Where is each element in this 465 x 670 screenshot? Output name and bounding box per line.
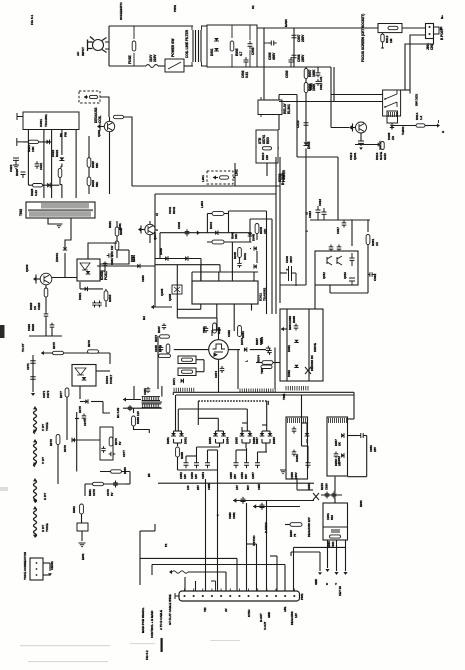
wire [367,220,369,232]
wire [265,450,267,452]
IC911 jungle IC box [192,281,258,304]
wire [228,211,230,233]
svg-text:25V: 25V [373,447,377,452]
arrow [123,397,126,401]
svg-text:D945: D945 [252,234,256,241]
capacitor C3 [292,32,297,40]
AC plug P1 [88,37,107,53]
wire [208,449,218,451]
wire [269,431,271,433]
wire [172,392,174,395]
arrow down [343,572,347,575]
svg-text:R976: R976 [87,340,91,347]
wire [75,439,100,441]
capacitor C5 [244,57,249,67]
capacitor C9 [378,141,383,148]
wire [100,250,129,264]
wire [425,125,437,127]
box R pack 2 [178,368,196,376]
svg-text:FUSE: FUSE [128,55,132,65]
resistor R34 [65,388,69,397]
resistor R19 [255,224,259,234]
capacitor C948 [162,323,166,330]
svg-text:50V: 50V [244,474,248,479]
wire [216,304,218,318]
svg-text:10K: 10K [234,233,238,239]
wire [100,270,105,272]
wire [331,127,349,129]
wire [293,28,295,67]
wire [270,555,277,557]
resistor R2 leads [231,25,233,67]
svg-text:+: + [286,268,288,272]
diode [59,157,64,160]
wire [353,127,356,129]
wire [224,213,229,215]
wire [405,39,434,91]
svg-text:C951: C951 [143,388,147,395]
wire [245,443,247,448]
svg-text:Q902: Q902 [97,130,101,137]
ground [56,224,63,228]
resistor R3 [304,69,308,79]
svg-text:R953 120: R953 120 [136,411,140,424]
wire [218,330,220,340]
resistor R946 [238,248,242,258]
svg-text:YOKE: YOKE [45,422,49,431]
svg-text:FIG 5-2: FIG 5-2 [145,650,149,660]
svg-text:R974: R974 [257,355,261,362]
wire [235,450,237,460]
capacitor C960 [325,492,330,499]
wire [181,439,183,443]
svg-text:Q901: Q901 [353,152,357,160]
svg-text:TDA8362: TDA8362 [263,287,267,301]
IC901 control box [23,112,79,130]
diode D4 lead [391,123,393,125]
wire [133,386,135,400]
svg-text:R926: R926 [31,324,35,331]
svg-text:Q912: Q912 [322,272,326,279]
arrow [213,175,216,179]
wire [296,479,298,490]
scan mark [161,638,163,652]
svg-text:H: H [441,131,445,133]
svg-text:1.2: 1.2 [419,115,423,120]
wire [249,219,251,240]
wire [265,443,267,450]
wire [100,471,130,473]
svg-text:COIL: COIL [98,115,102,123]
svg-text:4.7: 4.7 [239,51,243,56]
wire [41,352,110,354]
capacitor C981 [260,503,265,510]
svg-text:C925: C925 [37,302,41,310]
resistor R7 lead [381,33,384,48]
svg-text:D921: D921 [78,292,82,300]
scan smudge [0,487,8,491]
wire [279,94,297,96]
wire [273,362,280,364]
resistor R955 [176,447,180,457]
wire [80,288,103,290]
svg-text:REG: REG [266,137,270,144]
svg-text:SW DEG: SW DEG [415,93,419,106]
wire [401,89,410,91]
wire [242,430,250,432]
svg-text:C954: C954 [201,472,205,479]
wire [267,401,269,405]
degauss switch S901 [383,90,401,116]
wire [36,278,40,280]
wire [331,94,383,96]
resistor [90,95,98,98]
diode D971 [181,378,184,383]
transformer T1 windings [193,30,201,62]
optocoupler IC903 box [77,259,100,281]
capacitor C45 [82,414,87,421]
wire bottom rail [109,65,146,67]
wire [125,483,130,485]
wire [51,130,53,199]
resistor R7 [381,34,384,42]
transistor Q901 [356,122,367,133]
wire [177,308,201,310]
svg-text:FIG 5-1: FIG 5-1 [30,14,34,25]
capacitor C912 [316,79,321,86]
wire [177,443,179,446]
capacitor C957 [255,460,260,468]
wire [234,171,236,184]
wire [296,95,298,158]
svg-text:H DY: H DY [43,493,47,500]
svg-text:C943: C943 [177,222,181,229]
wire [80,401,85,403]
svg-text:D961: D961 [287,345,291,352]
wire [253,506,300,508]
resistor R941 [212,212,224,216]
resistor R25 [182,358,193,361]
svg-text:D957: D957 [255,437,259,444]
diode D18 [294,365,298,368]
diode D953 [213,433,218,436]
wire [256,362,262,364]
resistor R31 [330,535,341,538]
coil squiggle [172,571,188,573]
wire [391,126,393,130]
wire [330,95,332,128]
wire [219,443,221,447]
wire [249,439,251,443]
wire [219,265,221,272]
svg-text:C977: C977 [122,450,126,457]
svg-text:C955: C955 [207,483,211,490]
IC951 box [286,417,308,479]
wire [177,457,179,470]
wire [52,277,77,279]
transistor symbol [174,287,180,292]
svg-text:C952: C952 [227,330,231,337]
resistor R8 [416,124,425,127]
pin notches [185,589,295,592]
svg-text:0.01: 0.01 [245,72,249,78]
wire [207,213,212,215]
svg-text:C978: C978 [92,489,96,496]
svg-text:SCHEMATIC: SCHEMATIC [119,2,123,20]
arrow [281,327,284,331]
pin lead left [17,113,23,120]
svg-text:CONTROL + B MAIN: CONTROL + B MAIN [150,611,154,638]
diode D951 [171,433,176,436]
wire [196,359,204,361]
arrow [33,277,36,281]
wire [109,132,111,194]
wire [247,543,257,545]
wire [196,447,198,460]
svg-text:B5: B5 [147,473,151,477]
resistor R9 [381,142,384,150]
B+ jack J1 [426,24,440,39]
diode D957 [341,433,344,438]
wire [51,329,53,336]
power switch SW1 [165,59,184,72]
svg-text:C911: C911 [309,83,313,90]
wire [154,266,156,307]
svg-text:D952: D952 [184,437,188,444]
arrow [349,125,352,129]
svg-text:250V: 250V [301,54,305,62]
svg-text:C972: C972 [46,390,50,398]
pin hatch [286,386,308,391]
wire [108,26,110,66]
wire [178,408,247,410]
arrow out [437,123,440,127]
resistor R24 [262,361,273,365]
wire [151,306,172,308]
svg-text:R977: R977 [59,391,63,398]
svg-text:E901: E901 [81,553,85,560]
svg-text:C974: C974 [214,371,218,378]
transformer T902 [26,202,95,218]
wire [262,430,270,432]
diode D943 [197,230,200,234]
wire [275,157,277,160]
transistor mark [337,256,342,265]
svg-text:IC901: IC901 [39,119,43,127]
capacitor C22 [322,208,327,220]
wire [218,359,220,392]
capacitor C35 [292,450,297,457]
wire [196,371,204,373]
wire riser [195,581,197,591]
wire [236,449,247,451]
wire [334,497,336,503]
wire [173,439,175,443]
diode D921 [85,287,88,292]
wire [105,289,107,291]
diode D956 [248,433,253,436]
wire riser [266,500,268,591]
wire [151,565,153,576]
wire [297,156,338,158]
IC953 box [323,503,348,540]
tick [438,120,440,123]
connector left lead [175,593,179,599]
wire [367,245,369,294]
svg-text:R982: R982 [72,506,76,513]
resistor R2 [230,41,234,51]
IC952 box [327,417,348,476]
resistor R4 [304,83,308,93]
wire [280,284,306,286]
wire [157,336,159,389]
wire [333,67,335,102]
resistor R944 [212,240,224,244]
svg-text:P1: P1 [164,543,168,547]
capacitor C48 [113,481,118,488]
svg-text:C921: C921 [39,162,43,170]
wire [269,439,271,443]
svg-text:R978: R978 [49,439,53,446]
svg-text:16V: 16V [235,485,239,490]
wire [233,500,314,502]
degauss coil box [79,91,100,103]
svg-text:GND: GND [267,612,271,618]
wire [286,309,288,381]
svg-text:SYNC: SYNC [247,609,251,617]
wire [177,317,217,319]
svg-text:MAIN PCB SIGNAL: MAIN PCB SIGNAL [141,607,145,633]
svg-text:D953: D953 [208,437,212,444]
wire [79,282,81,289]
svg-text:D975: D975 [78,406,82,413]
svg-text:R965: R965 [292,316,296,323]
svg-text:220: 220 [265,155,269,160]
wire [181,431,183,433]
resistor R947 [160,335,170,338]
base bar [140,226,142,234]
svg-text:B1 0.82: B1 0.82 [116,407,120,418]
svg-text:D944: D944 [209,222,213,229]
wire [59,178,61,185]
wire [330,292,368,294]
connector P901 body [179,591,300,601]
wire [28,184,59,186]
svg-text:D954: D954 [226,437,230,444]
capacitor C34 [128,405,132,411]
vertical output box IC912 [315,251,358,285]
svg-text:V901: V901 [202,326,206,333]
CRT heater symbol [213,344,226,352]
wire [149,221,151,224]
svg-text:PIN: PIN [64,132,68,137]
wire [177,409,179,431]
svg-text:AC: AC [76,51,80,56]
svg-text:12V: 12V [294,613,298,618]
svg-text:C!: C! [155,213,159,216]
wire riser [225,572,227,591]
wire [216,442,224,444]
capacitor C26 [350,253,355,266]
wire [140,557,237,559]
wire [392,125,416,127]
arrow down [359,147,363,150]
diode D944 [215,230,218,235]
svg-text:GND: GND [383,152,387,160]
transformer T1 leads [192,26,207,66]
wire [258,451,268,453]
wire [64,253,66,278]
svg-text:0.22: 0.22 [34,190,38,196]
svg-text:AV: AV [224,608,228,612]
diode D8 zener [63,247,67,250]
wire [61,185,63,199]
wire [57,445,59,485]
wire [149,235,151,243]
wire riser [256,544,258,591]
wire [336,540,338,571]
svg-text:100K: 100K [312,69,316,77]
svg-text:V: V [335,583,337,586]
resistor R39 [80,504,84,514]
svg-text:C981: C981 [232,512,236,519]
wire [43,562,50,564]
svg-text:Q913: Q913 [343,272,347,279]
svg-text:H: H [326,583,328,586]
ground [79,543,86,547]
svg-text:400V: 400V [289,256,293,263]
wire [231,242,233,281]
capacitor C23 [342,221,347,228]
svg-text:C!: C! [305,212,309,215]
wire [249,239,251,242]
arrow [138,228,141,232]
wire [334,477,336,493]
wire [242,442,250,444]
svg-text:C922: C922 [9,164,13,172]
wire [345,540,347,571]
svg-text:SK: SK [338,441,342,446]
resistor R951 [238,326,242,337]
svg-text:C905: C905 [251,47,255,55]
svg-text:25V: 25V [196,485,200,490]
wire [278,115,280,131]
wire [197,418,199,425]
wire [301,423,303,446]
wire [173,431,175,433]
arrow [97,125,100,129]
svg-text:R980: R980 [123,467,127,474]
wire [100,126,104,128]
horizontal drive box [280,309,323,381]
svg-text:PWR: PWR [173,4,177,12]
wire [154,524,156,531]
resistor R36 [109,437,113,446]
wire B+ rail [279,160,281,303]
wire top rail [109,25,192,27]
svg-text:C915: C915 [308,211,312,218]
wire [100,97,109,117]
wire [262,424,267,426]
wire riser [284,565,286,592]
wire [43,130,45,199]
wire [184,65,192,67]
svg-text:KEY IN: KEY IN [338,586,342,596]
wire [233,304,235,331]
svg-text:C960: C960 [325,483,329,490]
wire plug to filter [105,42,109,49]
diode [82,377,87,380]
